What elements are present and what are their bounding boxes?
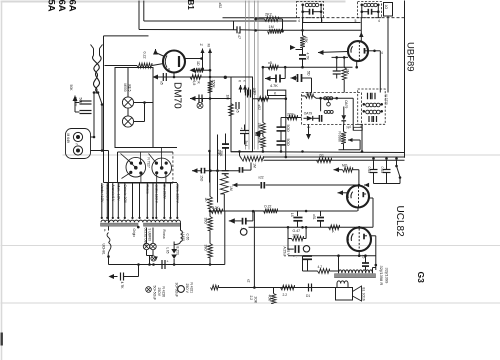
volume pot 1M: [220, 175, 228, 194]
diode 0A79 one: [307, 116, 313, 121]
IF can 3 dashed: [358, 89, 386, 124]
capacitor 0.25 b: [383, 169, 391, 171]
wire mains bottom horizontal: [108, 257, 110, 265]
wire disc top line: [316, 97, 353, 99]
svg-text:Nera -22O V: Nera -22O V: [176, 185, 180, 204]
tube DM70: [163, 51, 185, 73]
output transformer core: [335, 274, 376, 278]
discriminator box: [302, 93, 362, 125]
wire plate can vertical: [379, 51, 381, 93]
svg-text:Celeste-2OV: Celeste-2OV: [123, 185, 127, 204]
svg-text:5A: 5A: [46, 0, 57, 12]
ground arrow DM70 grid: [153, 49, 158, 55]
svg-text:5O+5OuF: 5O+5OuF: [153, 286, 157, 301]
antenna twisted feeder: [93, 56, 100, 93]
power transformer winding: [101, 220, 181, 222]
resistor 0.22 DM70: [137, 63, 152, 68]
ground arrow 4.7K: [109, 274, 115, 279]
wire heater top line: [117, 147, 178, 149]
pilot lamp a: [143, 243, 149, 249]
tube UCL82 pentode: [347, 228, 371, 252]
svg-text:G3: G3: [416, 272, 426, 284]
wire 45K column: [302, 30, 304, 35]
electrolytic can: [240, 229, 247, 236]
wire lamp connections: [134, 102, 145, 104]
wire y117: [281, 117, 302, 119]
svg-text:9 UBF89: 9 UBF89: [148, 229, 152, 242]
wire y170 line: [198, 170, 240, 172]
coil can3 upper: [366, 103, 370, 107]
resistor coupling: [329, 225, 340, 230]
tuning gang line A: [245, 1, 247, 150]
capacitor 500 a: [277, 126, 286, 128]
loop single: [327, 102, 331, 106]
capacitor disc mid: [318, 115, 320, 122]
capacitor series y98: [198, 95, 200, 103]
wire pentode right: [370, 235, 376, 237]
svg-text:1M: 1M: [269, 25, 274, 29]
svg-text:N 2725: N 2725: [384, 95, 388, 106]
capacitor electrolytic mains: [161, 260, 163, 269]
resistor 45K: [300, 36, 305, 48]
capacitor 25K: [222, 143, 229, 145]
svg-text:4: 4: [298, 19, 300, 23]
svg-text:N 4226: N 4226: [162, 287, 166, 298]
svg-text:4.7: 4.7: [318, 265, 323, 269]
wire triode plate: [358, 185, 360, 186]
capacitor 1.5K: [320, 211, 322, 216]
wire top-left vertical: [143, 1, 145, 22]
svg-text:7u: 7u: [346, 125, 350, 129]
svg-text:x5: x5: [236, 109, 240, 113]
left edge mark: [1, 333, 3, 346]
resistor 15K b: [261, 137, 266, 148]
svg-text:4.7K: 4.7K: [305, 53, 309, 61]
wire top bus upper: [223, 17, 297, 19]
wire tone bottom: [374, 183, 401, 185]
resistor series y98: [258, 96, 269, 101]
resistor 150K: [208, 81, 213, 93]
wiper arrow: [232, 183, 237, 188]
svg-text:4.7K: 4.7K: [270, 84, 278, 88]
tube UCL82 triode: [347, 186, 369, 208]
wire M line down: [209, 151, 211, 183]
svg-text:N 7927: N 7927: [146, 158, 150, 169]
wire triode cathode: [357, 208, 359, 212]
svg-text:OA79: OA79: [344, 100, 348, 108]
svg-text:3O+3OuF: 3O+3OuF: [174, 283, 178, 298]
svg-text:15O: 15O: [199, 175, 203, 182]
resistor 6.8K: [190, 75, 201, 80]
wire right border vertical: [404, 1, 406, 158]
wire y22: [303, 22, 361, 24]
screw 50uF: [146, 287, 152, 293]
svg-text:UCL82: UCL82: [394, 206, 405, 238]
svg-text:UCH81: UCH81: [101, 244, 105, 255]
coil can3 lower: [366, 110, 370, 114]
svg-text:~: ~: [75, 142, 78, 148]
capacitor 500 b: [277, 140, 286, 142]
svg-text:39O: 39O: [204, 245, 208, 252]
wire y76 cathode line: [158, 76, 232, 78]
switch tone: [396, 160, 398, 166]
svg-text:25OV: 25OV: [157, 288, 161, 297]
svg-text:x2: x2: [247, 279, 251, 283]
wire RF vertical: [282, 19, 284, 31]
wire chassis dashed line top: [297, 17, 405, 19]
svg-text:x52: x52: [218, 3, 222, 9]
svg-text:Rossa: Rossa: [162, 230, 166, 239]
svg-text:6A: 6A: [67, 0, 78, 12]
capacitor 0.1 out: [303, 255, 312, 257]
wire UBF89 grid: [324, 51, 348, 54]
svg-text:0.47: 0.47: [237, 32, 241, 39]
capacitor box 10: [247, 90, 249, 98]
wire triode right: [369, 197, 373, 199]
svg-text:x5: x5: [268, 61, 272, 65]
svg-text:15K: 15K: [257, 123, 261, 130]
capacitor can3 top: [367, 93, 369, 100]
svg-text:+: +: [241, 127, 243, 131]
resistor 1K: [208, 197, 213, 209]
double bus lower: [264, 159, 405, 161]
svg-text:M: M: [207, 44, 211, 47]
svg-text:5OO: 5OO: [286, 125, 290, 133]
wire winding ends: [137, 226, 140, 229]
wire grid line y184: [232, 184, 359, 186]
svg-text:6,8: 6,8: [192, 81, 196, 86]
terminal block disc: [353, 127, 362, 130]
wire disc right vertical: [352, 98, 354, 130]
svg-text:0.25: 0.25: [380, 167, 384, 174]
svg-text:1D: 1D: [196, 61, 200, 66]
wire x262 vertical: [262, 67, 264, 122]
wire UBF89 plate top: [360, 30, 362, 41]
capacitor line filter upper: [80, 100, 92, 102]
switch mains: [98, 93, 102, 105]
screw terminal: [151, 256, 156, 261]
capacitor 150 series: [200, 168, 202, 174]
svg-text:4: 4: [378, 19, 380, 23]
ground arrow 10: [190, 68, 196, 73]
svg-text:Bru 15OV: Bru 15OV: [163, 185, 167, 200]
svg-text:2.2: 2.2: [249, 296, 253, 301]
svg-text:1K: 1K: [204, 198, 208, 203]
wire fuse to mains: [91, 136, 95, 138]
capacitor 4.7K AVC: [265, 76, 271, 81]
output transformer primary: [339, 270, 373, 273]
signal arrow UBF89: [318, 50, 324, 55]
diode B250 two: [171, 255, 177, 260]
resistor 0.22 B+: [264, 209, 278, 214]
ground arrow cathode: [153, 75, 159, 80]
wire pot bottom down: [224, 211, 226, 265]
wire disc left vertical: [320, 98, 322, 111]
electrolytic 25uF: [288, 248, 294, 250]
svg-text:22O: 22O: [306, 92, 313, 96]
resistor 1M RF: [268, 29, 282, 34]
svg-text:25 V: 25 V: [286, 249, 290, 257]
svg-text:Bianco O V: Bianco O V: [106, 185, 110, 202]
svg-text:UBF89: UBF89: [405, 42, 416, 72]
svg-text:22O: 22O: [287, 113, 294, 117]
wire switch down: [101, 105, 103, 151]
wire DM70 cathode: [173, 73, 175, 78]
svg-text:DM70: DM70: [172, 82, 183, 109]
svg-text:2.2: 2.2: [283, 293, 288, 297]
resistor 220 disc: [305, 94, 313, 99]
svg-text:M 649: M 649: [66, 134, 70, 144]
socket UBF89 view: [152, 158, 172, 178]
wire y227 line: [249, 226, 374, 228]
svg-text:32(/1399: 32(/1399: [384, 268, 389, 285]
dial lamp box: [115, 68, 153, 148]
ground arrow 45K: [290, 45, 296, 50]
svg-text:1S: 1S: [290, 213, 294, 217]
svg-text:1O: 1O: [384, 5, 388, 10]
resistor 1M box edge: [229, 104, 234, 116]
svg-text:50K: 50K: [69, 85, 73, 92]
svg-text:M500: M500: [123, 84, 127, 92]
svg-text:D1: D1: [320, 154, 324, 158]
svg-text:2OK: 2OK: [254, 297, 258, 304]
IF can 2: [358, 2, 382, 18]
wire bottom audio: [219, 287, 337, 289]
capacitor 5K out: [365, 256, 367, 263]
pilot lamp b: [150, 243, 156, 249]
ground arrow line filter: [73, 96, 78, 102]
wire UBF89 cathode: [356, 61, 358, 67]
feedback loop path: [348, 138, 353, 142]
svg-text:1M: 1M: [229, 186, 233, 191]
svg-text:B1: B1: [186, 0, 195, 10]
rectifier winding: [181, 231, 183, 242]
arrow into box: [255, 130, 261, 135]
resistor 0.1 on bus: [317, 158, 332, 163]
dial lamp 2: [122, 116, 133, 127]
svg-text:0.22: 0.22: [142, 52, 146, 59]
output transformer secondary: [337, 281, 348, 284]
capacitor 0.47 cathode: [297, 211, 299, 216]
wire osc vertical: [233, 21, 235, 30]
resistor 2.2K series: [211, 209, 223, 214]
capacitor pot top: [222, 170, 229, 172]
switch UCH81 area: [108, 243, 111, 257]
svg-text:x22: x22: [258, 176, 263, 180]
svg-text:4.7K: 4.7K: [120, 282, 124, 290]
capacitor 25 tube: [336, 57, 338, 71]
terminal 30uF: [178, 286, 185, 293]
svg-text:25O V: 25O V: [185, 284, 189, 294]
resistor 10: [195, 68, 204, 73]
svg-text:5D: 5D: [306, 71, 310, 76]
svg-text:0.25: 0.25: [367, 167, 371, 174]
wire grid divider line: [332, 56, 349, 58]
heater wires: [101, 183, 103, 218]
ground arrow 15K: [255, 133, 260, 138]
coil disc bottom: [324, 110, 327, 113]
wire volume return vertical: [253, 212, 255, 288]
wire Z vertical: [200, 49, 204, 54]
wire 10 box down: [387, 16, 389, 93]
svg-text:6A: 6A: [56, 0, 67, 12]
svg-text:x51: x51: [312, 214, 316, 219]
capacitor 50 AVC: [291, 76, 297, 81]
socket box: [118, 151, 173, 153]
svg-text:22O: 22O: [293, 233, 300, 237]
svg-text:N 6986: N 6986: [338, 132, 342, 143]
svg-text:Grigio: Grigio: [132, 229, 136, 238]
capacitor 4.7K RF: [299, 54, 306, 56]
wire DM70 anode: [185, 58, 202, 60]
wire bus y150: [231, 151, 405, 154]
wire UBF89 right: [368, 50, 380, 52]
svg-text:45K: 45K: [304, 37, 308, 44]
wire left vertical v1: [287, 227, 289, 249]
svg-text:2K2: 2K2: [265, 12, 272, 16]
wire y98 line: [195, 98, 232, 100]
svg-text:4: 4: [381, 51, 383, 55]
ferrite box 10: [384, 3, 393, 17]
svg-text:O.47: O.47: [293, 229, 301, 233]
svg-text:EL 1O16: EL 1O16: [362, 288, 366, 301]
wire y98 right segment: [253, 98, 286, 100]
svg-text:50K: 50K: [78, 98, 82, 105]
wire pentode top: [358, 226, 361, 229]
box AM detector: [231, 77, 253, 152]
resistor 2.2K bottom: [281, 285, 295, 290]
svg-text:N 4321: N 4321: [190, 283, 194, 294]
capacitor padder 10: [245, 88, 247, 96]
resistor 45K bus: [242, 156, 264, 161]
double bus upper: [264, 156, 405, 158]
signal arrow triode: [338, 190, 344, 195]
dial lamp 1: [122, 97, 133, 108]
svg-text:5OO: 5OO: [286, 139, 290, 147]
resistor 4.7 out: [318, 269, 330, 274]
capacitor 5K series: [162, 73, 164, 81]
diode B250 one: [171, 249, 177, 254]
svg-text:Marr. -1OV: Marr. -1OV: [117, 185, 121, 202]
svg-text:x5: x5: [362, 255, 366, 259]
resistor 390: [208, 244, 213, 258]
svg-text:Giallo 12O V: Giallo 12O V: [155, 185, 159, 204]
resistor 40K bottom: [271, 294, 276, 304]
fuse holder M649: [66, 129, 91, 159]
wire M vertical: [208, 49, 212, 54]
wire can3 down: [361, 124, 363, 151]
resistor 15K a: [261, 123, 266, 134]
svg-text:x5: x5: [159, 81, 163, 85]
ground arrow disc: [306, 134, 311, 140]
svg-text:4OK: 4OK: [267, 295, 271, 302]
capacitor 0.22 grid: [260, 183, 265, 186]
svg-text:+ .: + .: [293, 255, 297, 259]
capacitor can3 bottom: [368, 116, 370, 122]
resistor 220 series: [287, 115, 298, 120]
svg-text:U 615: U 615: [181, 233, 185, 242]
svg-text:35O: 35O: [204, 218, 208, 225]
wire top bus lower: [144, 20, 297, 22]
speaker EL1016: [336, 288, 353, 301]
page fold line upper: [63, 154, 500, 156]
svg-text:x52: x52: [257, 105, 261, 111]
resistor N6986: [341, 132, 346, 144]
svg-text:150K: 150K: [211, 80, 215, 89]
ground arrow y98: [190, 96, 196, 101]
resistor 0.1M audio: [343, 167, 353, 172]
ground arrow y170: [192, 168, 198, 173]
page fold line middle: [1, 245, 500, 247]
svg-text:E 250: E 250: [176, 247, 180, 256]
svg-text:C 65: C 65: [185, 234, 189, 241]
wire y66 horizontal: [263, 66, 353, 68]
wire y182: [104, 182, 178, 184]
box dial assembly outline: [104, 35, 149, 37]
wire pentode cathode: [358, 251, 360, 256]
top page edge shadow: [1, 1, 346, 3]
resistor 5K line: [268, 65, 278, 70]
capacitor line filter lower: [80, 110, 92, 112]
resistor bottom left: [211, 285, 219, 290]
svg-text:2.2K: 2.2K: [212, 206, 220, 210]
tube UBF89: [348, 41, 368, 61]
wire y255: [288, 255, 376, 257]
svg-text:Rossa: Rossa: [146, 185, 150, 194]
wire y28 horizontal: [139, 29, 234, 31]
power transformer core right: [144, 223, 181, 226]
IF can 1: [297, 2, 324, 18]
svg-text:1M: 1M: [346, 69, 350, 74]
capacitor 0.1 bottom: [308, 284, 310, 292]
svg-text:A 25uF: A 25uF: [282, 247, 286, 257]
wire pilot lamps: [146, 228, 148, 244]
capacitor 0.25 a: [370, 169, 378, 171]
capacitor 3u4: [240, 130, 249, 132]
svg-text:MO: MO: [342, 164, 348, 168]
svg-text:P.: P.: [332, 230, 335, 234]
svg-text:1500V: 1500V: [74, 97, 78, 108]
page fold line lower: [1, 302, 500, 304]
socket UCL82 view: [126, 157, 146, 177]
wire v2: [305, 227, 307, 238]
test point screw: [202, 99, 204, 103]
resistor box K: [268, 90, 286, 95]
arrows V X: [238, 85, 242, 90]
coil disc top: [324, 97, 327, 100]
wire y69 line: [195, 69, 211, 71]
svg-text:OA79: OA79: [304, 112, 313, 116]
wire antenna down left: [93, 93, 95, 138]
svg-text:Verde +1OV: Verde +1OV: [100, 185, 104, 204]
resistor 220 cathode: [292, 236, 304, 241]
arrow audio right: [334, 167, 340, 172]
svg-text:D1: D1: [306, 294, 310, 298]
svg-text:L 65: L 65: [166, 248, 170, 254]
resistor 2K2: [265, 17, 279, 22]
svg-text:1M: 1M: [226, 95, 230, 100]
svg-text:32(/1398 R: 32(/1398 R: [379, 266, 384, 286]
capacitor 0.47 osc: [236, 26, 238, 33]
diode 0A79 two: [341, 115, 346, 120]
power transformer core left: [101, 223, 139, 226]
svg-text:O.22: O.22: [264, 205, 271, 209]
svg-text:1DK: 1DK: [257, 137, 261, 144]
grid cap circle: [303, 246, 309, 252]
capacitor electrolytic B1: [229, 218, 235, 223]
wire x285 down: [285, 99, 287, 157]
svg-text:+: +: [167, 260, 169, 264]
